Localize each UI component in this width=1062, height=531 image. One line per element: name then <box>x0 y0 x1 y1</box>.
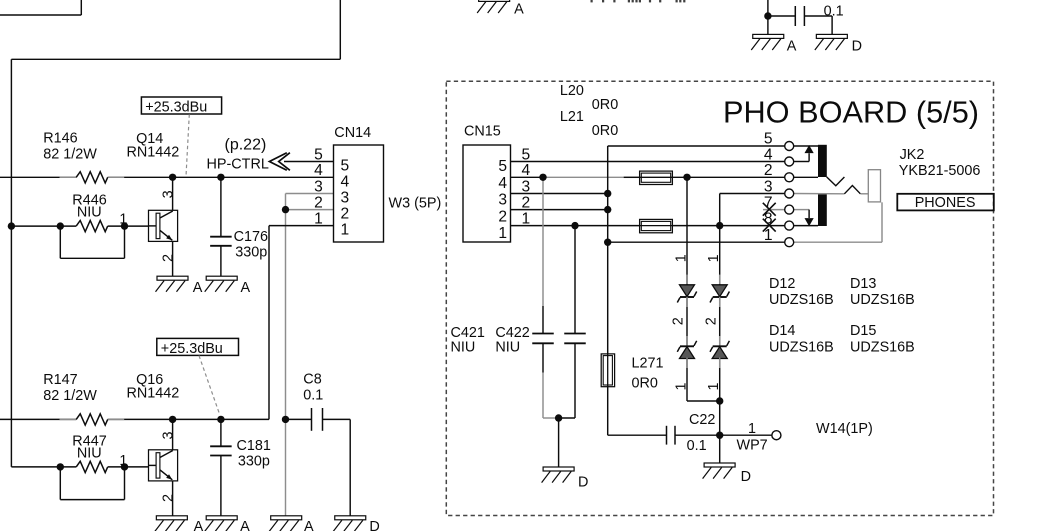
svg-text:NIU: NIU <box>77 446 102 462</box>
svg-text:2: 2 <box>160 254 176 262</box>
svg-text:1: 1 <box>706 254 722 262</box>
svg-text:NIU: NIU <box>451 340 476 356</box>
svg-text:D12: D12 <box>769 276 795 292</box>
svg-text:1: 1 <box>522 211 531 228</box>
svg-text:A: A <box>514 2 524 18</box>
svg-text:L271: L271 <box>632 356 664 372</box>
svg-text:2: 2 <box>703 317 719 325</box>
svg-text:3: 3 <box>522 178 531 195</box>
svg-text:330p: 330p <box>235 244 267 260</box>
svg-text:1: 1 <box>764 227 773 244</box>
svg-text:7: 7 <box>764 195 773 212</box>
svg-text:D: D <box>578 475 588 491</box>
svg-text:C22: C22 <box>689 412 715 428</box>
svg-text:C181: C181 <box>237 438 271 454</box>
svg-text:R147: R147 <box>43 372 77 388</box>
svg-text:82 1/2W: 82 1/2W <box>43 147 97 163</box>
svg-text:L20: L20 <box>560 83 584 99</box>
svg-text:5: 5 <box>498 158 507 175</box>
svg-text:3: 3 <box>314 178 323 195</box>
svg-text:(p.22): (p.22) <box>225 137 267 154</box>
svg-text:1: 1 <box>498 225 507 242</box>
svg-text:UDZS16B: UDZS16B <box>850 339 915 355</box>
svg-text:0R0: 0R0 <box>632 375 658 391</box>
svg-text:RN1442: RN1442 <box>127 144 180 160</box>
svg-text:D: D <box>852 39 862 55</box>
svg-text:D: D <box>369 519 379 531</box>
svg-text:HP-CTRL: HP-CTRL <box>207 156 269 172</box>
svg-text:RN1442: RN1442 <box>127 386 180 402</box>
svg-text:1: 1 <box>673 382 689 390</box>
svg-text:+25.3dBu: +25.3dBu <box>161 341 223 357</box>
svg-text:1: 1 <box>748 421 756 437</box>
svg-text:NIU: NIU <box>495 340 520 356</box>
svg-text:2: 2 <box>160 494 176 502</box>
svg-text:3: 3 <box>498 192 507 209</box>
svg-text:4: 4 <box>314 162 323 179</box>
svg-text:PHO BOARD (5/5): PHO BOARD (5/5) <box>723 96 979 130</box>
svg-text:330p: 330p <box>238 453 270 469</box>
svg-text:1: 1 <box>341 222 350 239</box>
svg-text:C176: C176 <box>234 229 268 245</box>
svg-text:5: 5 <box>341 158 350 175</box>
svg-text:W3 (5P): W3 (5P) <box>389 196 442 212</box>
svg-text:L21: L21 <box>560 109 584 125</box>
svg-text:1: 1 <box>706 382 722 390</box>
svg-text:UDZS16B: UDZS16B <box>850 292 915 308</box>
svg-text:CN15: CN15 <box>464 124 501 140</box>
svg-text:0.1: 0.1 <box>687 438 707 454</box>
svg-text:2: 2 <box>522 195 531 212</box>
svg-text:2: 2 <box>314 195 323 212</box>
svg-text:YKB21-5006: YKB21-5006 <box>899 163 981 179</box>
svg-text:2: 2 <box>341 206 350 223</box>
svg-text:W14(1P): W14(1P) <box>816 421 873 437</box>
svg-text:5: 5 <box>522 146 531 163</box>
svg-text:NIU: NIU <box>77 204 102 220</box>
svg-text:A: A <box>241 280 251 296</box>
svg-text:5: 5 <box>314 146 323 163</box>
svg-text:4: 4 <box>522 162 531 179</box>
svg-text:D13: D13 <box>850 276 876 292</box>
svg-text:0.1: 0.1 <box>303 388 323 404</box>
svg-text:A: A <box>193 280 203 296</box>
svg-text:82 1/2W: 82 1/2W <box>43 388 97 404</box>
svg-text:A: A <box>304 519 314 531</box>
svg-text:2: 2 <box>764 162 773 179</box>
svg-text:2: 2 <box>498 208 507 225</box>
svg-text:0R0: 0R0 <box>592 97 618 113</box>
svg-text:0.1: 0.1 <box>824 3 844 19</box>
svg-text:1: 1 <box>119 212 127 228</box>
svg-text:8: 8 <box>764 211 773 228</box>
svg-text:D: D <box>741 469 751 485</box>
svg-text:3: 3 <box>764 178 773 195</box>
svg-text:A: A <box>194 519 204 531</box>
svg-text:D14: D14 <box>769 323 795 339</box>
svg-text:5: 5 <box>764 131 773 148</box>
svg-text:1: 1 <box>119 453 127 469</box>
svg-text:C8: C8 <box>303 372 321 388</box>
svg-text:3: 3 <box>160 431 176 439</box>
svg-text:4: 4 <box>498 175 507 192</box>
svg-text:WP7: WP7 <box>737 438 768 454</box>
svg-text:UDZS16B: UDZS16B <box>769 339 834 355</box>
svg-text:3: 3 <box>160 190 176 198</box>
svg-text:PHONES: PHONES <box>915 195 976 211</box>
svg-text:JK2: JK2 <box>900 147 925 163</box>
svg-text:A: A <box>240 519 250 531</box>
svg-text:0R0: 0R0 <box>592 123 618 139</box>
svg-text:3: 3 <box>341 190 350 207</box>
svg-text:4: 4 <box>764 146 773 163</box>
svg-text:CN14: CN14 <box>334 125 371 141</box>
svg-text:+25.3dBu: +25.3dBu <box>145 100 207 116</box>
svg-text:2: 2 <box>671 317 687 325</box>
svg-text:4: 4 <box>341 173 350 190</box>
svg-text:1: 1 <box>314 211 323 228</box>
svg-text:D15: D15 <box>850 323 876 339</box>
svg-text:R146: R146 <box>43 131 77 147</box>
svg-text:UDZS16B: UDZS16B <box>769 292 834 308</box>
svg-text:1: 1 <box>673 254 689 262</box>
svg-text:A: A <box>787 39 797 55</box>
